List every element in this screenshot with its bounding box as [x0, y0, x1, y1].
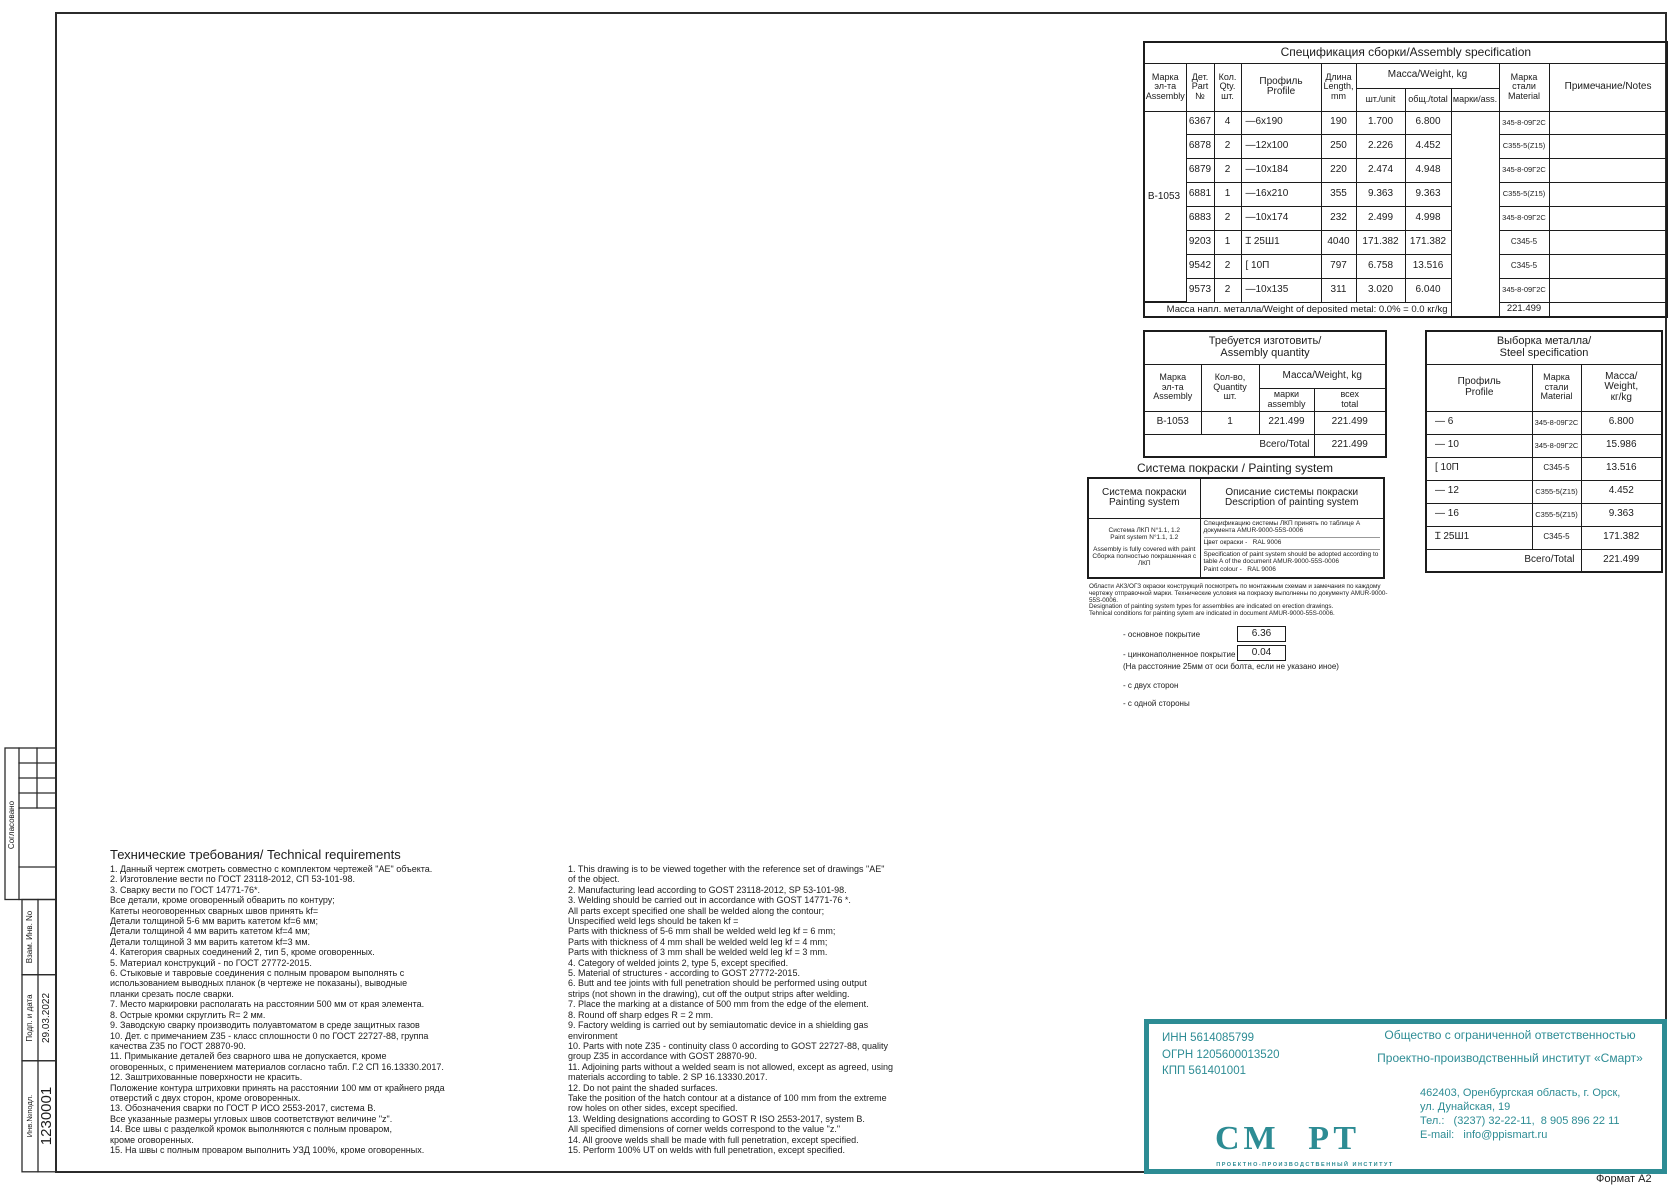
legend: цинконаполненное покрытие: [1123, 650, 1235, 659]
logo СМАРТ: [1215, 1120, 1400, 1160]
legend: с одной стороны: [1123, 699, 1190, 708]
legend: основное покрытие: [1123, 630, 1200, 639]
left title blocks: [5, 748, 56, 1172]
table: Выборка металла/Steel specification: [1425, 330, 1663, 573]
table: Требуется изготовить/Assembly quantity: [1143, 330, 1387, 458]
table: Спецификация сборки/Assembly specification: [1143, 41, 1668, 318]
company info box: [1144, 1019, 1667, 1174]
legend: с двух сторон: [1123, 681, 1178, 690]
table: Система покраски / Painting system: [1087, 461, 1383, 475]
